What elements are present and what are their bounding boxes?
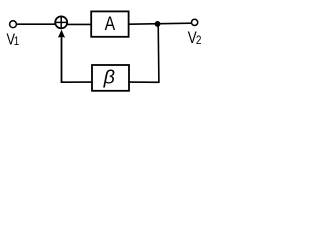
wire summer to A block <box>67 23 92 25</box>
summing junction <box>55 16 67 28</box>
wire feedback up to summer with arrowhead <box>58 30 65 83</box>
svg-text:2: 2 <box>196 34 202 47</box>
feedback block beta <box>92 65 129 91</box>
wire input to summer <box>17 23 56 25</box>
amplifier block A <box>91 11 128 36</box>
node junction dot <box>155 21 161 27</box>
wire A block to output <box>130 23 192 24</box>
label V1 <box>6 31 19 48</box>
wire feedback right segment <box>129 81 160 83</box>
wire feedback left segment <box>61 81 93 83</box>
svg-text:1: 1 <box>14 35 19 48</box>
wire junction down <box>157 24 160 82</box>
input terminal V1 <box>10 21 17 28</box>
svg-text:β: β <box>103 67 115 89</box>
label V2 <box>188 29 202 48</box>
svg-text:A: A <box>105 13 116 35</box>
output terminal V2 <box>192 19 198 25</box>
